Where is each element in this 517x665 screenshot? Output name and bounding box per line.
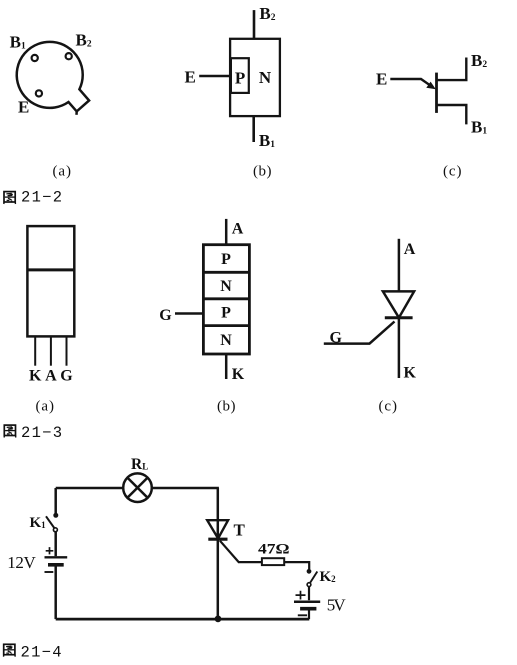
wire E lead (b): [199, 75, 231, 78]
svg-text:21−2: 21−2: [21, 189, 62, 207]
battery 5V positive plate: [294, 600, 320, 603]
UJT package outline (a) with index tab: [17, 42, 89, 115]
svg-text:E: E: [18, 98, 29, 117]
UJT structure outer N region (b): [230, 39, 280, 116]
SCR cathode bar (c): [385, 316, 413, 319]
thyristor T triangle: [207, 520, 228, 538]
switch K2: [307, 569, 311, 573]
wire K lead (c): [398, 318, 401, 378]
svg-text:21−4: 21−4: [21, 644, 62, 662]
pin dot B2: [66, 53, 72, 59]
stack divider 1 (b): [203, 271, 249, 274]
UJT symbol base bar (c): [435, 73, 438, 113]
svg-text:(c): (c): [379, 399, 398, 415]
wire E lead with arrow (c): [390, 79, 431, 86]
lead G (a): [66, 336, 68, 365]
caption 图21-4: [4, 644, 16, 656]
svg-text:P: P: [221, 251, 231, 268]
caption 图21-2: [4, 192, 16, 204]
svg-text:G: G: [330, 330, 343, 347]
wire 5V battery to bottom: [308, 609, 310, 619]
svg-text:(a): (a): [36, 399, 55, 415]
wire resistor to K2: [284, 562, 309, 569]
svg-text:K: K: [232, 366, 245, 383]
svg-text:21−3: 21−3: [21, 424, 62, 442]
pin dot B1: [32, 55, 38, 61]
svg-text:N: N: [220, 278, 232, 295]
wire bottom: [56, 618, 310, 621]
battery 5V negative plate: [300, 607, 316, 611]
svg-text:K: K: [29, 367, 42, 384]
svg-text:N: N: [259, 68, 272, 87]
battery 12V negative plate: [48, 563, 64, 567]
svg-text:P: P: [221, 305, 231, 322]
stack divider 2 (b): [203, 297, 249, 300]
UJT structure P region (b): [231, 58, 249, 93]
wire B2 lead (b): [253, 10, 256, 39]
svg-text:A: A: [232, 221, 244, 238]
wire G lead (c): [324, 322, 395, 344]
battery 12V minus sign: [45, 571, 54, 573]
caption 图21-3: [4, 425, 16, 437]
svg-text:K: K: [404, 365, 417, 382]
svg-text:(c): (c): [443, 164, 462, 180]
battery 5V minus sign: [298, 614, 307, 616]
wire top left segment: [56, 487, 124, 490]
lamp RL: [123, 473, 152, 502]
resistor 47 ohm body: [262, 558, 284, 565]
wire left vertical upper: [54, 488, 57, 513]
svg-text:(a): (a): [53, 164, 72, 180]
svg-text:P: P: [235, 69, 245, 88]
svg-text:A: A: [404, 241, 416, 258]
svg-text:T: T: [234, 521, 246, 540]
switch K1: [54, 513, 58, 517]
battery 5V plus sign: [296, 591, 306, 600]
wire K lead (b): [225, 354, 228, 379]
stack divider 3 (b): [203, 324, 249, 327]
wire thyristor branch vertical: [217, 488, 220, 619]
svg-text:E: E: [185, 68, 196, 87]
wire K2 to battery: [308, 587, 310, 601]
battery 12V positive plate: [45, 556, 68, 558]
lead K (a): [34, 336, 36, 365]
thyristor T cathode bar: [208, 538, 227, 541]
wire A lead (c): [398, 239, 401, 292]
wire A lead (b): [225, 219, 228, 245]
lead A (a): [50, 336, 52, 365]
svg-text:(b): (b): [253, 164, 272, 180]
svg-text:G: G: [60, 367, 73, 384]
wire gate horizontal: [238, 561, 262, 563]
svg-text:A: A: [45, 367, 57, 384]
wire K1 to battery: [54, 532, 57, 556]
SCR triangle (c): [383, 291, 414, 317]
wire B1 lead (b): [252, 116, 255, 142]
wire B1 lead (c): [438, 105, 467, 124]
wire left vertical lower: [54, 565, 57, 619]
wire B2 lead (c): [438, 58, 467, 81]
battery 12V plus sign: [46, 547, 54, 554]
svg-text:E: E: [376, 70, 387, 89]
svg-text:5V: 5V: [327, 596, 347, 615]
svg-text:12V: 12V: [7, 553, 36, 572]
wire G lead (b): [175, 312, 203, 315]
wire gate diagonal: [220, 541, 239, 562]
junction dot: [215, 616, 221, 622]
svg-text:47Ω: 47Ω: [258, 542, 290, 558]
PNPN stack outline (b): [203, 245, 249, 354]
wire top right segment: [152, 487, 219, 490]
SCR package outline (a): [27, 226, 74, 336]
svg-text:G: G: [159, 307, 172, 324]
svg-text:N: N: [220, 332, 232, 349]
pin dot E: [36, 90, 42, 96]
svg-text:(b): (b): [217, 399, 236, 415]
package divider line (a): [27, 268, 74, 271]
